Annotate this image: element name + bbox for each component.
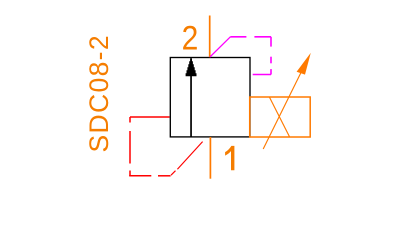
adjustment arrow head: [297, 53, 311, 75]
port 2 line: [209, 16, 211, 58]
pilot line (magenta dashed): [210, 37, 271, 75]
port label 2: [182, 19, 199, 57]
restrictor body (orange box): [250, 97, 311, 137]
restrictor cross leg: [270, 97, 290, 137]
drain line (red dashed): [129, 117, 202, 176]
svg-text:SDC08-2: SDC08-2: [84, 34, 114, 152]
adjustment arrow shaft: [263, 73, 301, 150]
port label 1: [225, 146, 234, 170]
port 1 line: [209, 137, 211, 179]
flow arrow inside valve body: [186, 58, 197, 136]
svg-text:2: 2: [182, 19, 199, 57]
valve body (black box): [170, 58, 250, 137]
label SDC08-2: [84, 34, 114, 152]
